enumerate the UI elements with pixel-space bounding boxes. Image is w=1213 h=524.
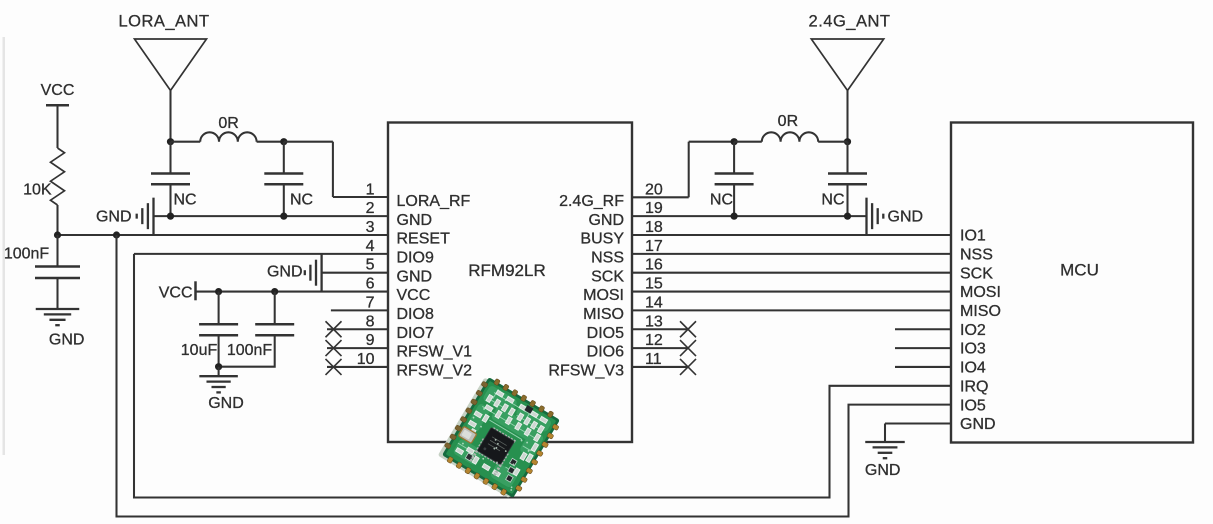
svg-text:GND: GND: [96, 208, 132, 225]
svg-text:17: 17: [645, 238, 663, 255]
svg-text:VCC: VCC: [397, 287, 431, 304]
svg-text:GND: GND: [588, 212, 624, 229]
svg-text:MCU: MCU: [1060, 260, 1099, 279]
svg-text:100nF: 100nF: [4, 246, 50, 263]
svg-text:NC: NC: [710, 191, 733, 208]
svg-text:VCC: VCC: [41, 82, 75, 99]
svg-text:19: 19: [645, 200, 663, 217]
svg-text:IRQ: IRQ: [960, 378, 988, 395]
svg-text:NC: NC: [290, 191, 313, 208]
svg-text:2.4G_RF: 2.4G_RF: [559, 193, 624, 210]
svg-text:RFSW_V3: RFSW_V3: [548, 363, 624, 380]
svg-text:NSS: NSS: [960, 246, 993, 263]
svg-text:15: 15: [645, 276, 663, 293]
svg-text:6: 6: [366, 276, 375, 293]
svg-text:GND: GND: [397, 212, 433, 229]
svg-text:13: 13: [645, 313, 663, 330]
svg-text:GND: GND: [865, 462, 901, 479]
svg-text:18: 18: [645, 219, 663, 236]
svg-text:12: 12: [645, 332, 663, 349]
svg-text:MOSI: MOSI: [583, 287, 624, 304]
svg-text:DIO6: DIO6: [587, 344, 624, 361]
svg-text:1: 1: [366, 181, 375, 198]
svg-text:IO1: IO1: [960, 228, 986, 245]
svg-text:16: 16: [645, 257, 663, 274]
svg-text:2: 2: [366, 200, 375, 217]
svg-text:NC: NC: [174, 191, 197, 208]
svg-text:0R: 0R: [778, 113, 798, 130]
svg-text:SCK: SCK: [591, 268, 624, 285]
svg-text:GND: GND: [49, 332, 85, 349]
svg-text:2.4G_ANT: 2.4G_ANT: [809, 12, 891, 30]
svg-text:DIO8: DIO8: [397, 306, 434, 323]
svg-text:MISO: MISO: [960, 303, 1001, 320]
svg-text:3: 3: [366, 219, 375, 236]
svg-text:5: 5: [366, 257, 375, 274]
svg-text:7: 7: [366, 294, 375, 311]
svg-text:LORA_RF: LORA_RF: [397, 193, 471, 210]
svg-text:VCC: VCC: [159, 284, 193, 301]
svg-text:14: 14: [645, 294, 663, 311]
svg-text:DIO7: DIO7: [397, 325, 434, 342]
svg-text:RESET: RESET: [397, 231, 451, 248]
svg-text:10: 10: [357, 351, 375, 368]
svg-text:GND: GND: [960, 416, 996, 433]
svg-text:GND: GND: [208, 395, 244, 412]
svg-text:IO2: IO2: [960, 322, 986, 339]
svg-text:NSS: NSS: [591, 249, 624, 266]
svg-text:RFSW_V2: RFSW_V2: [397, 363, 473, 380]
svg-text:BUSY: BUSY: [580, 231, 624, 248]
svg-text:RFSW_V1: RFSW_V1: [397, 344, 473, 361]
svg-text:MOSI: MOSI: [960, 284, 1001, 301]
svg-text:DIO5: DIO5: [587, 325, 624, 342]
svg-text:MISO: MISO: [583, 306, 624, 323]
svg-text:9: 9: [366, 332, 375, 349]
svg-text:RFM92LR: RFM92LR: [468, 261, 545, 280]
svg-text:DIO9: DIO9: [397, 249, 434, 266]
svg-text:IO5: IO5: [960, 397, 986, 414]
svg-text:10K: 10K: [23, 181, 52, 198]
svg-text:IO4: IO4: [960, 360, 986, 377]
svg-text:0R: 0R: [218, 115, 238, 132]
svg-text:LORA_ANT: LORA_ANT: [118, 12, 209, 30]
svg-text:GND: GND: [888, 208, 924, 225]
svg-text:11: 11: [645, 351, 662, 368]
svg-text:GND: GND: [267, 264, 303, 281]
svg-text:4: 4: [366, 238, 375, 255]
svg-text:SCK: SCK: [960, 265, 993, 282]
svg-text:100nF: 100nF: [227, 342, 273, 359]
svg-text:8: 8: [366, 313, 375, 330]
svg-text:10uF: 10uF: [181, 342, 218, 359]
svg-text:IO3: IO3: [960, 341, 986, 358]
svg-text:20: 20: [645, 181, 663, 198]
svg-text:NC: NC: [821, 191, 844, 208]
svg-text:GND: GND: [397, 268, 433, 285]
